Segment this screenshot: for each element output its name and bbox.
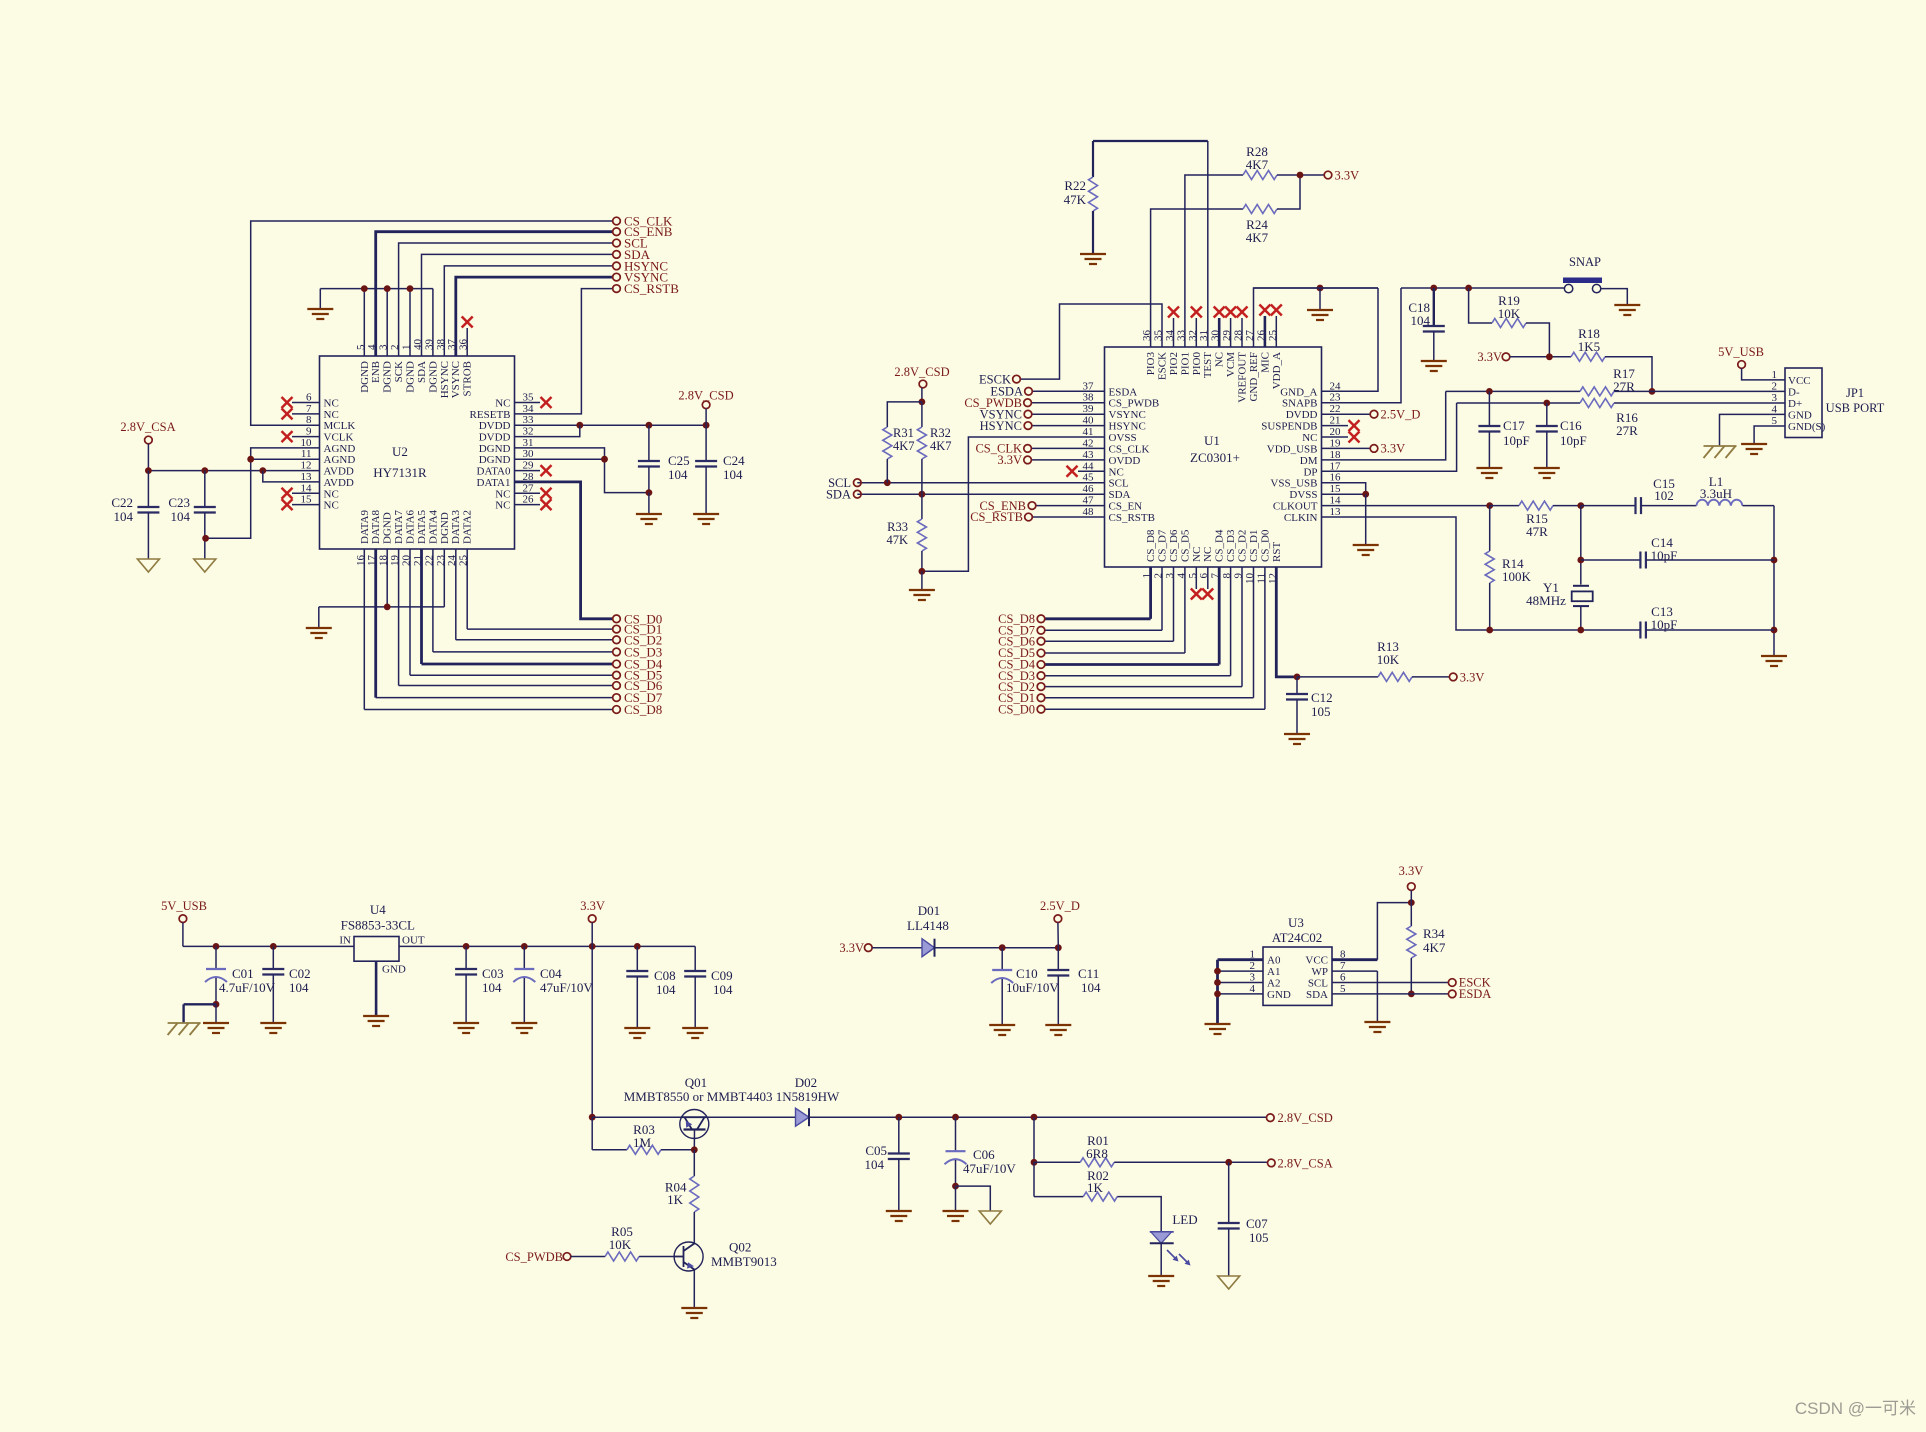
svg-text:NC: NC (1214, 352, 1226, 367)
capacitor C09 104 (684, 946, 733, 1028)
ground right rail (1761, 656, 1787, 666)
svg-text:DVDD: DVDD (479, 432, 511, 444)
svg-text:D02: D02 (795, 1075, 817, 1090)
svg-text:CS_D8: CS_D8 (1145, 529, 1157, 562)
no-connect X U1 VCM (1225, 307, 1236, 348)
power terminal 3.3V near R28 (1324, 169, 1359, 183)
wire U2 CS_D1 (467, 549, 613, 629)
svg-text:18: 18 (1330, 449, 1342, 461)
terminal SCL (613, 236, 648, 251)
svg-text:CS_D0: CS_D0 (1259, 529, 1271, 562)
terminal CS_D0 of U1 (998, 702, 1045, 716)
svg-text:SCL: SCL (1109, 478, 1129, 490)
U2 right pin names and numbers (470, 392, 534, 512)
svg-text:34: 34 (523, 403, 535, 415)
svg-text:105: 105 (1249, 1230, 1269, 1245)
svg-text:3.3V: 3.3V (1399, 864, 1424, 878)
resistor R18 1K5 (1571, 326, 1652, 391)
svg-text:R22: R22 (1064, 178, 1086, 193)
wire U1 CS_D5 (1045, 567, 1185, 653)
svg-text:HSYNC: HSYNC (439, 361, 451, 398)
svg-text:104: 104 (171, 509, 191, 524)
wire CLKOUT node to R15 (1486, 502, 1519, 509)
svg-text:LED: LED (1172, 1212, 1197, 1227)
capacitor C05 104 (865, 1117, 910, 1211)
ground C01 (203, 1023, 229, 1033)
wire U1 SNAPB up (1322, 288, 1402, 403)
power terminal 2.8V_CSD right of U2 (678, 389, 733, 426)
svg-text:48: 48 (1083, 506, 1095, 518)
svg-text:SDA: SDA (1109, 489, 1131, 501)
svg-text:NC: NC (1109, 466, 1124, 478)
svg-text:FS8853-33CL: FS8853-33CL (341, 918, 415, 933)
wire U4 GND (375, 961, 378, 1016)
svg-text:15: 15 (301, 494, 313, 506)
svg-text:RESETB: RESETB (470, 409, 511, 421)
transistor Q01 MMBT8550 (624, 1075, 840, 1150)
wire U2 CS_D2 (456, 549, 613, 640)
ground top-right of U1 (1307, 288, 1333, 320)
svg-text:DGND: DGND (439, 512, 451, 544)
svg-text:R31: R31 (893, 426, 914, 440)
wire+terminal 2.5V_D (1322, 407, 1421, 421)
svg-text:27R: 27R (1616, 423, 1638, 438)
svg-text:R33: R33 (887, 520, 908, 534)
svg-text:GND(S): GND(S) (1788, 421, 1826, 433)
capacitor C01 4.7uF (205, 946, 276, 1023)
svg-text:1K: 1K (667, 1192, 684, 1207)
svg-text:Q01: Q01 (685, 1075, 707, 1090)
svg-text:47R: 47R (1526, 524, 1548, 539)
svg-text:4.7uF/10V: 4.7uF/10V (219, 980, 276, 995)
watermark (1795, 1399, 1916, 1418)
wire U1 DM to D- line (1322, 391, 1446, 460)
terminal CS_D0 of U2 (613, 611, 663, 626)
stub U2 NC pin7 (282, 408, 320, 419)
svg-text:C04: C04 (540, 966, 562, 981)
svg-text:DATA0: DATA0 (477, 466, 511, 478)
svg-text:C06: C06 (973, 1147, 995, 1162)
ground C23 triangle (194, 559, 216, 572)
stub U2 DATA0 pin29 (515, 465, 552, 476)
power terminal 2.8V_CSD output (1267, 1111, 1333, 1125)
U3 pin names and numbers (1250, 949, 1347, 1001)
terminal CS_D3 of U1 (998, 669, 1045, 683)
wire D02 to 2.8V_CSD (809, 1114, 1267, 1121)
resistor R24 4K7 (1243, 205, 1277, 246)
resistor R22 47K (1064, 141, 1098, 254)
svg-text:17: 17 (1330, 460, 1342, 472)
svg-text:104: 104 (865, 1157, 885, 1172)
svg-text:1K: 1K (1087, 1180, 1104, 1195)
svg-text:USB PORT: USB PORT (1826, 401, 1885, 415)
U2 left pin names and numbers (301, 392, 356, 512)
stub U2 NC pin14 (282, 488, 320, 499)
ground U4 (363, 1016, 389, 1026)
wire U2 CS_D8 (364, 549, 612, 710)
wire D+ line (1457, 400, 1785, 407)
LED indicator (1150, 1212, 1198, 1266)
svg-text:AT24C02: AT24C02 (1272, 930, 1323, 945)
svg-text:4K7: 4K7 (893, 439, 915, 453)
resistor R34 4K7 (1407, 903, 1446, 998)
U1 top pin names and numbers (1141, 330, 1283, 403)
svg-text:DGND: DGND (479, 443, 511, 455)
svg-text:29: 29 (523, 460, 535, 472)
svg-text:NC: NC (324, 409, 339, 421)
svg-text:DATA4: DATA4 (427, 510, 439, 544)
terminal CS_D8 of U1 (998, 612, 1045, 626)
svg-text:5: 5 (1340, 983, 1346, 995)
no-connect X U1 NC pin44 (1067, 466, 1105, 477)
analog ground triangle near C06 (979, 1211, 1001, 1224)
wire C01 to chassis ground (184, 1004, 216, 1023)
svg-text:SDA: SDA (826, 487, 851, 501)
svg-text:C02: C02 (289, 966, 311, 981)
svg-text:104: 104 (114, 509, 134, 524)
wire ground rail top (1254, 287, 1379, 289)
ground C16 (1534, 468, 1560, 478)
svg-text:R32: R32 (930, 426, 951, 440)
svg-text:DGND: DGND (359, 361, 371, 393)
svg-text:41: 41 (1083, 426, 1094, 438)
svg-text:CLKOUT: CLKOUT (1273, 501, 1318, 513)
svg-text:31: 31 (523, 437, 534, 449)
svg-text:3.3V: 3.3V (839, 941, 864, 955)
svg-text:JP1: JP1 (1846, 386, 1864, 400)
wire U1 CS_D1 (1045, 567, 1254, 698)
stub U2 NC pin35 (515, 397, 552, 408)
svg-text:C03: C03 (482, 966, 504, 981)
stub U2 NC pin26 (515, 499, 552, 510)
svg-text:10pF: 10pF (1651, 548, 1678, 563)
wire branch to R01 R02 (1031, 1117, 1038, 1196)
stub U2 NC pin27 (515, 488, 552, 499)
svg-text:33: 33 (523, 414, 535, 426)
no-connect X U1 NC pin30 (1214, 307, 1225, 348)
svg-text:102: 102 (1654, 488, 1674, 503)
junction dots on DGND rail (361, 285, 414, 292)
capacitor C24 (695, 425, 745, 514)
svg-text:CSDN @一可米: CSDN @一可米 (1795, 1399, 1916, 1418)
svg-text:22: 22 (1330, 403, 1341, 415)
svg-text:AGND: AGND (324, 454, 356, 466)
svg-text:10pF: 10pF (1503, 433, 1530, 448)
svg-text:PIO2: PIO2 (1168, 352, 1180, 375)
wire U1 CS_D4 (1045, 567, 1219, 665)
wire U2 CS_D0 (0, 0, 1, 1)
terminal SDA (613, 247, 651, 262)
wire U1 CLKIN (1322, 517, 1490, 630)
capacitor C02 104 (262, 946, 310, 1023)
svg-text:CS_RSTB: CS_RSTB (624, 281, 679, 296)
no-connect X U1 PIO2 (1168, 307, 1179, 348)
svg-text:42: 42 (1083, 437, 1094, 449)
svg-text:40: 40 (1083, 415, 1095, 427)
capacitor C13 10pF (1640, 604, 1774, 639)
U1 bottom pin names and numbers (1141, 529, 1283, 584)
ground C06 (943, 1211, 969, 1221)
svg-text:HSYNC: HSYNC (980, 419, 1022, 433)
wire 2.8V_CSA rail to AVDD (145, 467, 320, 474)
ground Q02 (681, 1308, 707, 1318)
wire CS_CLK from U2 MCLK (251, 221, 613, 425)
svg-text:ZC0301+: ZC0301+ (1190, 450, 1240, 465)
terminal CS_D8 of U2 (613, 702, 663, 717)
svg-text:IN: IN (339, 935, 351, 947)
svg-text:C16: C16 (1560, 418, 1582, 433)
terminal CS_D6 of U2 (613, 678, 663, 693)
svg-text:10K: 10K (609, 1237, 632, 1252)
svg-text:4: 4 (1250, 983, 1256, 995)
svg-text:10K: 10K (1498, 306, 1521, 321)
svg-text:26: 26 (523, 494, 535, 506)
wire U2 CS_D7 (376, 549, 613, 698)
wire Q02 emitter to ground (693, 1270, 695, 1308)
svg-text:10: 10 (301, 437, 313, 449)
svg-text:A1: A1 (1267, 966, 1280, 978)
wire U1 CS_D0 (1045, 567, 1265, 709)
IC U1 ZC0301+ body (1105, 347, 1322, 567)
wire+terminal CS_RSTB U1 (970, 510, 1104, 524)
resistor R02 1K (1034, 1168, 1161, 1232)
ground DVSS (1353, 545, 1379, 555)
stub U2 VCLK pin9 (282, 431, 320, 442)
stub U2 NC pin6 (282, 397, 320, 408)
terminal CS_D4 of U2 (613, 657, 663, 672)
svg-text:2.5V_D: 2.5V_D (1381, 407, 1421, 421)
wire U1 ESCK pin35 (1020, 304, 1162, 379)
svg-text:37: 37 (1083, 380, 1095, 392)
svg-text:PIO1: PIO1 (1179, 352, 1191, 375)
svg-text:AGND: AGND (324, 443, 356, 455)
wire D- line (1446, 388, 1785, 395)
ground C22 triangle (137, 559, 159, 572)
svg-text:104: 104 (713, 982, 733, 997)
svg-text:C23: C23 (168, 495, 190, 510)
no-connect X U1 MIC (1259, 305, 1270, 348)
U2 top pin names and numbers (355, 339, 474, 399)
wire SCL row to U1 (857, 479, 1104, 486)
svg-text:3.3V: 3.3V (1335, 169, 1360, 183)
svg-text:7: 7 (1340, 960, 1346, 972)
svg-text:6: 6 (1340, 972, 1346, 984)
wire U2 bottom DGND rail (319, 549, 445, 628)
svg-text:C01: C01 (232, 966, 254, 981)
svg-text:5V_USB: 5V_USB (161, 899, 207, 913)
capacitor C15 102 (1581, 476, 1697, 514)
wire U3 A0-GND to ground (1214, 960, 1263, 1024)
terminal CS_RSTB (613, 281, 680, 296)
wire CS_RSTB to U2 RESETB (515, 289, 613, 414)
svg-text:27: 27 (523, 482, 535, 494)
svg-text:C22: C22 (111, 495, 133, 510)
svg-text:14: 14 (1330, 495, 1342, 507)
wire crystal bottom line (1486, 627, 1640, 634)
svg-text:19: 19 (1330, 437, 1342, 449)
svg-text:44: 44 (1083, 460, 1095, 472)
chassis ground JP1 (1704, 446, 1737, 458)
transistor Q02 MMBT9013 (674, 1240, 777, 1272)
svg-text:A2: A2 (1267, 978, 1280, 990)
svg-text:C25: C25 (668, 453, 690, 468)
svg-text:CS_D2: CS_D2 (1237, 530, 1249, 562)
wire U3 VCC to 3.3V (1332, 899, 1415, 960)
ground C02 (260, 1023, 286, 1033)
wire U2 CS_D4 (422, 549, 613, 664)
terminal CS_ENB (613, 224, 673, 239)
chassis ground bottom left (168, 1023, 201, 1035)
no-connect X U1 VDD_A (1271, 305, 1282, 348)
svg-text:104: 104 (1081, 980, 1101, 995)
svg-text:104: 104 (482, 980, 502, 995)
svg-text:LL4148: LL4148 (907, 918, 949, 933)
inductor L1 3.3uH (1696, 474, 1774, 506)
svg-text:104: 104 (668, 467, 688, 482)
svg-text:10K: 10K (1377, 652, 1400, 667)
no-connect X U1 NC pin20 (1322, 432, 1360, 443)
svg-text:100K: 100K (1502, 569, 1532, 584)
terminal CS_D6 of U1 (998, 634, 1045, 648)
wire VSYNC from U2 (456, 277, 613, 356)
svg-text:C08: C08 (654, 968, 676, 983)
svg-text:DGND: DGND (382, 361, 394, 393)
wire U1 PIO1 to R28 (1185, 175, 1243, 347)
resistor R14 100K (1485, 506, 1531, 630)
svg-text:4: 4 (1772, 403, 1778, 415)
wire C06 to analog ground (956, 1186, 991, 1211)
power terminal 5V_USB bottom (161, 899, 207, 946)
svg-text:VSYNC: VSYNC (1109, 409, 1146, 421)
svg-text:GND: GND (382, 964, 406, 976)
terminal CS_D3 of U2 (613, 644, 663, 659)
svg-text:SCL: SCL (1308, 978, 1328, 990)
svg-text:CS_D8: CS_D8 (624, 702, 662, 717)
resistor R01 6R8 (1034, 1133, 1268, 1167)
power terminal 3.3V bottom (580, 899, 605, 946)
svg-text:48MHz: 48MHz (1526, 593, 1566, 608)
terminal CS_D2 of U2 (613, 632, 663, 647)
ground R22 (1080, 254, 1106, 264)
wire+terminal CS_PWDB (964, 396, 1104, 410)
svg-text:U3: U3 (1288, 915, 1304, 930)
wire U2 CS_D3 (433, 549, 613, 652)
svg-text:PIO3: PIO3 (1145, 352, 1157, 376)
wire U2 DVDD rail (515, 422, 710, 429)
capacitor C10 10uF (991, 948, 1059, 1025)
svg-text:SCK: SCK (393, 361, 405, 382)
svg-text:DATA6: DATA6 (405, 510, 417, 544)
svg-text:DGND: DGND (405, 361, 417, 393)
wire U1 CS_D2 (1045, 567, 1242, 687)
svg-text:VDD_A: VDD_A (1271, 352, 1283, 389)
svg-text:AVDD: AVDD (324, 466, 354, 478)
power terminal 3.3V right of R13 (1449, 670, 1484, 684)
connector JP1 USB PORT body (1785, 368, 1885, 438)
wire U1 TEST to R22 (1093, 141, 1208, 347)
svg-text:47K: 47K (886, 533, 908, 547)
svg-text:104: 104 (289, 980, 309, 995)
no-connect X U1 SUSPENDB (1322, 420, 1360, 431)
ground C08 (624, 1028, 650, 1038)
svg-text:5V_USB: 5V_USB (1718, 345, 1764, 359)
svg-text:TEST: TEST (1202, 352, 1214, 379)
svg-text:SDA: SDA (416, 361, 428, 383)
ground C09 (682, 1028, 708, 1038)
capacitor C16 (1536, 403, 1587, 468)
capacitor C12 (1286, 677, 1333, 734)
terminal CS_CLK (613, 214, 673, 229)
wire D01 to 2.5V_D (935, 944, 1062, 951)
svg-text:DATA9: DATA9 (359, 510, 371, 544)
svg-text:SUSPENDB: SUSPENDB (1261, 421, 1317, 433)
ground C25 (636, 514, 662, 524)
svg-text:DATA1: DATA1 (477, 477, 511, 489)
power terminal 3.3V left of R18 (1477, 350, 1571, 364)
svg-text:5: 5 (1772, 415, 1778, 427)
ground C10 (989, 1025, 1015, 1035)
svg-text:U4: U4 (370, 902, 386, 917)
terminal CS_D7 of U1 (998, 624, 1045, 638)
wire+terminal ESDA (990, 385, 1104, 399)
svg-text:DATA8: DATA8 (370, 510, 382, 544)
svg-text:43: 43 (1083, 449, 1095, 461)
svg-text:CS_PWDB: CS_PWDB (1109, 398, 1160, 410)
wire SDA from U2 SDA (422, 254, 613, 356)
svg-text:CS_D7: CS_D7 (1157, 529, 1169, 562)
svg-text:13: 13 (301, 471, 313, 483)
wire U1 CS_D7 (1045, 567, 1162, 630)
svg-text:GND: GND (1788, 409, 1812, 421)
svg-text:NC: NC (1302, 432, 1317, 444)
wire U1 DP to D+ line (1322, 403, 1457, 471)
wire+terminal CS_ENB U1 (979, 499, 1104, 513)
ground C24 (693, 514, 719, 524)
JP1 pin names and numbers (1772, 369, 1826, 433)
wire U1 CLKOUT (1322, 505, 1490, 507)
svg-text:39: 39 (1083, 403, 1095, 415)
svg-text:AVDD: AVDD (324, 477, 354, 489)
svg-text:ENB: ENB (370, 361, 382, 383)
pushbutton SNAP (1563, 255, 1602, 293)
svg-text:C17: C17 (1503, 418, 1525, 433)
svg-text:7: 7 (306, 403, 312, 415)
junction dot ground stem (1317, 285, 1324, 292)
svg-text:27R: 27R (1613, 379, 1635, 394)
svg-text:35: 35 (523, 392, 535, 404)
svg-text:16: 16 (1330, 472, 1342, 484)
svg-text:NC: NC (324, 398, 339, 410)
svg-text:6R8: 6R8 (1086, 1146, 1108, 1161)
svg-text:HSYNC: HSYNC (1109, 421, 1146, 433)
svg-text:C10: C10 (1016, 966, 1038, 981)
resistor R13 10K (1297, 639, 1449, 681)
resistor R03 1M (592, 1122, 697, 1154)
svg-text:2.8V_CSA: 2.8V_CSA (1278, 1156, 1333, 1170)
svg-text:OVSS: OVSS (1109, 432, 1137, 444)
svg-text:3.3uH: 3.3uH (1700, 486, 1732, 501)
svg-text:C24: C24 (723, 453, 745, 468)
wire+terminal VSYNC U1 (980, 407, 1105, 421)
svg-text:CS_PWDB: CS_PWDB (505, 1250, 563, 1264)
svg-text:NC: NC (1191, 547, 1203, 562)
capacitor C25 (638, 425, 690, 514)
wire U2 AVDD pin13 riser (263, 471, 320, 482)
svg-text:47K: 47K (1064, 192, 1087, 207)
wire+terminal 3.3V VDD_USB (1322, 442, 1406, 456)
svg-text:3.3V: 3.3V (580, 899, 605, 913)
svg-text:3.3V: 3.3V (1460, 670, 1485, 684)
